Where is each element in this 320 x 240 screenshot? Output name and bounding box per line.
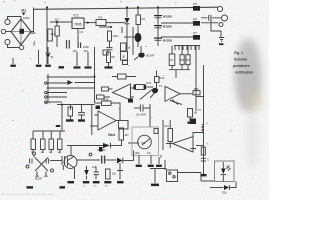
svg-text:Z1: Z1 (51, 55, 55, 59)
svg-text:R2: R2 (142, 17, 146, 21)
svg-text:probatoire: probatoire (233, 64, 250, 68)
svg-text:R1: R1 (99, 16, 103, 20)
svg-text:100n: 100n (113, 34, 119, 38)
svg-text:R14: R14 (104, 98, 109, 102)
svg-text:10n: 10n (147, 152, 152, 155)
svg-text:Out: Out (108, 132, 116, 137)
svg-text:R12: R12 (160, 76, 165, 80)
svg-text:D5: D5 (194, 2, 198, 6)
svg-text:out: out (160, 154, 163, 158)
svg-text:D6: D6 (194, 17, 198, 21)
svg-text:BC547: BC547 (147, 54, 155, 58)
svg-text:BC547: BC547 (35, 178, 43, 181)
svg-text:4k7: 4k7 (125, 133, 130, 137)
svg-text:D10: D10 (222, 192, 227, 195)
svg-text:P2: P2 (142, 141, 146, 145)
svg-text:Fig. 1: Fig. 1 (234, 51, 243, 55)
svg-text:R5: R5 (112, 55, 116, 59)
svg-text:E: E (123, 54, 126, 59)
svg-text:4u7: 4u7 (92, 166, 97, 169)
svg-text:1N4007: 1N4007 (97, 149, 106, 152)
svg-text:R17: R17 (45, 101, 51, 105)
svg-text:ndl. Schéma de principe du mon: ndl. Schéma de principe du montage décri… (1, 192, 54, 196)
svg-text:100n: 100n (23, 16, 30, 20)
svg-text:D2: D2 (55, 18, 59, 22)
svg-text:BY255: BY255 (163, 25, 172, 29)
svg-text:22n: 22n (30, 31, 35, 35)
svg-text:vérification: vérification (235, 71, 253, 75)
svg-text:D7: D7 (194, 31, 198, 35)
svg-text:R11: R11 (147, 81, 152, 85)
svg-text:Schéma: Schéma (234, 58, 247, 62)
svg-text:D1: D1 (22, 9, 27, 13)
svg-text:100n: 100n (83, 45, 89, 49)
svg-text:IC1: IC1 (74, 14, 79, 18)
svg-text:BY255: BY255 (163, 15, 172, 19)
svg-text:7805: 7805 (74, 23, 82, 27)
svg-text:4k7: 4k7 (51, 32, 56, 36)
svg-text:100n: 100n (135, 152, 141, 155)
svg-text:10n 400V: 10n 400V (136, 114, 147, 117)
svg-text:R21: R21 (165, 125, 170, 128)
svg-text:BY255: BY255 (163, 39, 172, 43)
svg-text:R16: R16 (194, 88, 199, 91)
svg-text:C: C (207, 159, 209, 162)
svg-text:1M: 1M (194, 111, 198, 115)
svg-text:10n: 10n (84, 49, 89, 53)
svg-text:C4: C4 (80, 30, 84, 34)
svg-text:10n: 10n (73, 49, 78, 53)
